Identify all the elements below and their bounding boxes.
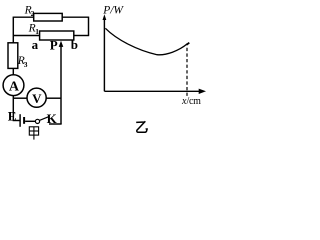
switch K lever: [39, 117, 49, 121]
svg-text:/cm: /cm: [187, 96, 202, 107]
wire top-left horizontal: [13, 16, 33, 18]
voltmeter V: [27, 88, 46, 107]
svg-text:P: P: [50, 37, 58, 52]
wire slider stem vertical: [60, 45, 62, 125]
svg-text:b: b: [71, 37, 78, 52]
wire battery stub horizontal: [13, 120, 20, 122]
caption yi (乙): [136, 121, 148, 132]
dashed guide line: [186, 48, 188, 98]
curve end tick: [186, 43, 189, 45]
wire left vertical upper: [12, 17, 14, 43]
slider arrow of P: [59, 41, 64, 47]
svg-text:1: 1: [35, 27, 39, 36]
resistor R2: [34, 13, 63, 21]
svg-text:P/W: P/W: [102, 4, 124, 16]
wire connector horizontal to R1 right edge: [74, 35, 89, 37]
resistor R1 (rheostat body): [40, 31, 74, 40]
wire right connector vertical R2 to R1: [88, 17, 90, 36]
curve P(x): [105, 28, 187, 55]
battery E short plate: [23, 117, 25, 124]
wire top-right horizontal: [62, 16, 88, 18]
ammeter A: [3, 75, 24, 96]
svg-text:A: A: [9, 79, 20, 94]
svg-text:E: E: [8, 109, 17, 124]
wire voltmeter right: [46, 97, 61, 99]
resistor R3: [8, 43, 18, 69]
wire R3 to ammeter: [12, 68, 14, 75]
svg-text:3: 3: [24, 60, 28, 69]
battery E long plate: [19, 114, 21, 127]
wire ammeter to battery vertical: [12, 96, 14, 121]
wire R1 left horizontal: [13, 35, 39, 37]
svg-text:2: 2: [31, 9, 35, 18]
svg-text:V: V: [32, 91, 42, 106]
x-axis: [104, 90, 199, 92]
wire voltmeter left: [13, 97, 27, 99]
switch K pivot circle: [35, 119, 39, 123]
caption jia (甲): [29, 127, 38, 140]
wire battery to switch: [25, 120, 35, 122]
svg-text:a: a: [32, 37, 39, 52]
wire switch to right corner: [49, 123, 62, 125]
y-axis P/W: [103, 19, 105, 91]
